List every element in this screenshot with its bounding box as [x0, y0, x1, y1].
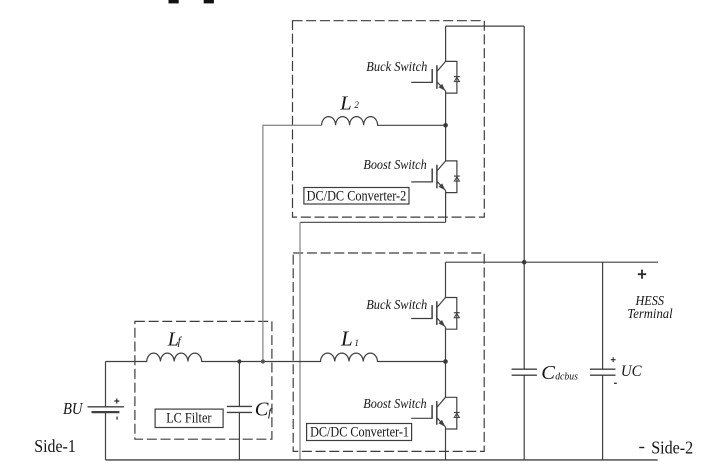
svg-text:UC: UC: [621, 363, 642, 380]
svg-text:DC/DC Converter-2: DC/DC Converter-2: [307, 189, 407, 205]
svg-text:Buck Switch: Buck Switch: [366, 60, 427, 75]
svg-text:Boost Switch: Boost Switch: [363, 158, 426, 173]
svg-text:LC Filter: LC Filter: [166, 410, 211, 426]
svg-text:2: 2: [354, 100, 359, 110]
svg-text:Terminal: Terminal: [627, 307, 672, 322]
svg-text:C: C: [541, 362, 555, 384]
svg-text:L: L: [340, 327, 353, 351]
svg-text:Side-2: Side-2: [651, 437, 693, 457]
svg-text:dcbus: dcbus: [555, 371, 578, 382]
svg-text:1: 1: [354, 339, 359, 349]
svg-text:BU: BU: [63, 399, 83, 418]
svg-text:Boost Switch: Boost Switch: [363, 397, 426, 412]
svg-text:Side-1: Side-1: [34, 436, 76, 456]
svg-text:Buck Switch: Buck Switch: [366, 298, 427, 313]
svg-text:C: C: [255, 398, 269, 420]
svg-text:DC/DC Converter-1: DC/DC Converter-1: [310, 424, 409, 440]
svg-text:L: L: [339, 92, 351, 114]
